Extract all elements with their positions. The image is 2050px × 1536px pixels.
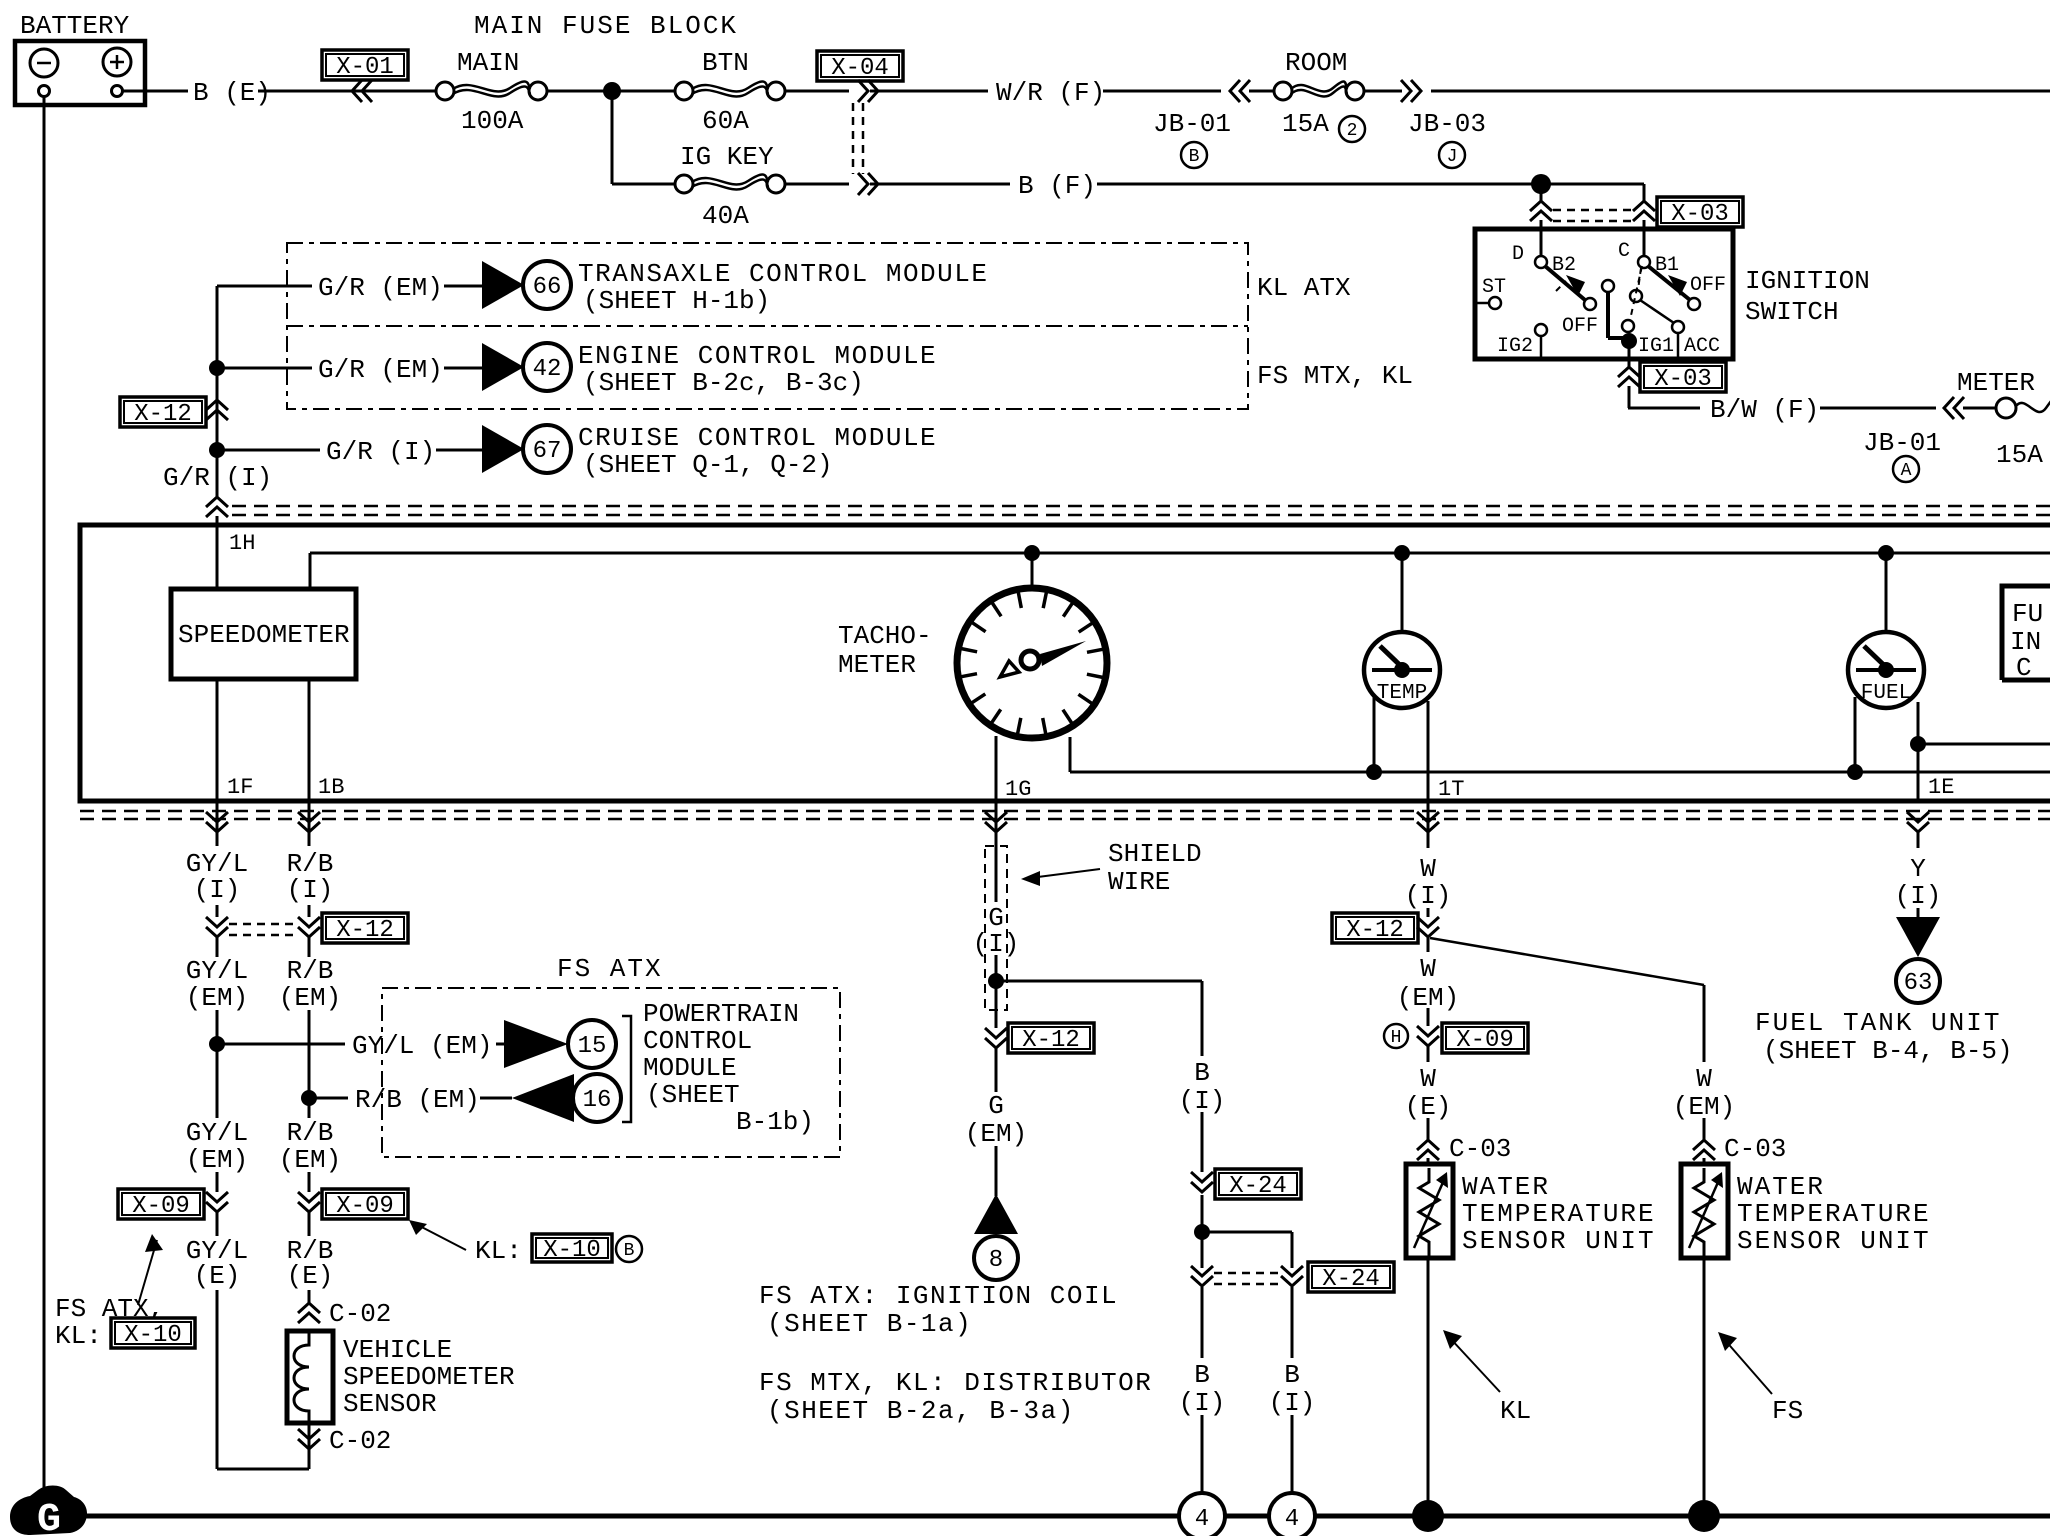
label ENGINE CONTROL MODULE [578,341,937,398]
svg-text:G/R (EM): G/R (EM) [318,273,443,303]
connector X-12 center [1008,1023,1094,1054]
svg-text:R/B: R/B [287,1118,334,1148]
connector chevrons X-09 GY/L [206,1192,228,1212]
svg-text:JB-03: JB-03 [1408,109,1486,139]
connector chevrons X-04 row2 [858,173,878,195]
svg-text:4: 4 [1285,1506,1299,1533]
wire B (F) [870,183,1535,186]
junction dot fuel bus [1847,764,1863,780]
connector chevrons X-12 W [1417,917,1439,937]
connector X-09 W [1442,1023,1528,1054]
wire to fuel indicator [1918,743,2050,746]
svg-text:(E): (E) [1405,1092,1452,1122]
connector X-12 dashed link [229,923,297,926]
svg-text:FU: FU [2012,599,2043,629]
wire label R/B (I) [287,849,334,905]
svg-text:BATTERY: BATTERY [20,11,130,41]
connector chevrons C-02 top [298,1303,320,1323]
svg-text:C-02: C-02 [329,1299,391,1329]
svg-text:X-12: X-12 [1022,1027,1080,1054]
svg-text:X-10: X-10 [124,1322,182,1349]
svg-text:(EM): (EM) [186,1145,248,1175]
svg-text:KL:: KL: [55,1321,102,1351]
svg-text:TRANSAXLE CONTROL MODULE: TRANSAXLE CONTROL MODULE [578,259,988,289]
connector chevrons C-03 right [1693,1140,1715,1160]
svg-text:POWERTRAIN: POWERTRAIN [643,999,799,1029]
label CRUISE CONTROL MODULE [578,423,937,480]
svg-text:67: 67 [533,438,562,465]
arrow to ignition coil [974,1194,1018,1234]
svg-text:X-12: X-12 [336,917,394,944]
svg-text:16: 16 [583,1087,612,1114]
connector chevrons X-01 [352,80,372,102]
dashed option box KL ATX / FS MTX [287,243,1248,409]
circled 15 powertrain [568,1020,616,1068]
arrow from powertrain pin 16 [512,1074,574,1122]
svg-text:TEMPERATURE: TEMPERATURE [1737,1199,1931,1229]
wire label B (I) upper [1179,1058,1226,1116]
svg-text:B: B [624,1241,635,1261]
svg-text:1H: 1H [229,531,255,556]
wire fuel right 1E [1917,702,1920,801]
svg-text:1B: 1B [318,775,344,800]
svg-text:JB-01: JB-01 [1863,428,1941,458]
svg-text:C-03: C-03 [1724,1134,1786,1164]
wire to fuel gauge [1885,553,1888,634]
label FS MTX, KL: DISTRIBUTOR [759,1368,1152,1426]
instrument cluster box [80,525,2050,801]
ignition switch box [1475,229,1733,359]
wire label GY/L (E) [186,1236,248,1291]
svg-text:WATER: WATER [1462,1172,1550,1202]
svg-text:OFF: OFF [1562,315,1598,338]
svg-text:B-1b): B-1b) [736,1107,814,1137]
svg-text:TEMPERATURE: TEMPERATURE [1462,1199,1656,1229]
dashed bus lower pair [80,811,2050,819]
wire to temp gauge [1401,553,1404,634]
svg-text:B: B [1189,147,1200,167]
connector X-12 lower [322,913,408,944]
wire W/R (F) [870,90,1221,93]
svg-text:X-03: X-03 [1654,366,1712,393]
svg-text:SENSOR UNIT: SENSOR UNIT [1737,1226,1931,1256]
circled A junction block [1893,456,1919,482]
svg-text:WATER: WATER [1737,1172,1825,1202]
junction dot G branch [988,973,1004,989]
wire label GY/L (EM) upper [186,956,248,1013]
svg-text:66: 66 [533,274,562,301]
connector chevrons X-24 upper [1191,1172,1213,1192]
svg-text:CRUISE CONTROL MODULE: CRUISE CONTROL MODULE [578,423,937,453]
connector chevrons X-24 lower right [1281,1266,1303,1286]
wire 1H to speedometer [216,525,219,589]
svg-text:MAIN FUSE BLOCK: MAIN FUSE BLOCK [474,11,738,41]
svg-text:WIRE: WIRE [1108,867,1170,897]
connector chevrons X-24 lower left [1191,1266,1213,1286]
ignition contact IG2 [1497,324,1547,359]
wire label G (I) [973,903,1020,959]
ignition contact ACC path [1630,268,1720,359]
wire fuel left to bus [1854,697,1857,772]
svg-text:(E): (E) [287,1261,334,1291]
shield wire dashed box [985,846,1007,1010]
wire label W (EM) [1397,954,1459,1013]
water temperature sensor unit KL [1406,1164,1453,1258]
wire MAIN fuse to BTN fuse [547,90,675,93]
svg-text:W: W [1420,954,1436,984]
svg-text:(I): (I) [1179,1086,1226,1116]
wire IG KEY fuse to X-04 [785,183,849,186]
svg-text:X-12: X-12 [1346,917,1404,944]
svg-text:(I): (I) [1269,1388,1316,1418]
wire B right to ground [1291,1287,1294,1493]
ignition contact ST [1475,276,1506,309]
svg-text:GY/L: GY/L [186,956,248,986]
svg-text:SWITCH: SWITCH [1745,297,1839,327]
wire GY/L column [216,801,219,1469]
svg-text:1E: 1E [1928,775,1954,800]
svg-text:(SHEET B-2c, B-3c): (SHEET B-2c, B-3c) [583,368,864,398]
wire label R/B (E) [287,1236,334,1291]
svg-text:(SHEET B-4, B-5): (SHEET B-4, B-5) [1763,1036,2013,1066]
ignition contact B2 [1535,254,1576,277]
svg-text:GY/L (EM): GY/L (EM) [352,1031,492,1061]
svg-text:FS MTX, KL: FS MTX, KL [1257,361,1413,391]
svg-text:B (E): B (E) [193,78,271,108]
svg-text:X-09: X-09 [132,1193,190,1220]
junction dot fuel feed [1878,545,1894,561]
junction dot tacho feed [1024,545,1040,561]
svg-text:15: 15 [578,1033,607,1060]
arrow to engine module [482,343,524,391]
connector chevrons X-03 top left [1530,201,1552,221]
svg-text:X-09: X-09 [1456,1027,1514,1054]
wire G column [995,801,998,1196]
svg-text:(SHEET H-1b): (SHEET H-1b) [583,286,770,316]
svg-text:IGNITION: IGNITION [1745,266,1870,296]
wire label R/B (EM) upper [279,956,341,1013]
label WATER TEMPERATURE SENSOR UNIT FS [1737,1172,1931,1256]
junction dot GY/L branch [209,1036,225,1052]
connector chevrons C-02 bottom [298,1429,320,1449]
wire ROOM fuse to JB-03 [1364,90,1402,93]
connector chevrons JB-01 B [1230,80,1250,102]
svg-text:H: H [1391,1028,1402,1048]
svg-text:(I): (I) [1405,881,1452,911]
svg-text:X-09: X-09 [336,1193,394,1220]
connector X-10 right callout [532,1234,612,1264]
wire B (F) to ignition switch C [1541,184,1644,262]
svg-text:B: B [1284,1360,1300,1390]
ignition switch arm B2-OFF [1545,266,1596,310]
svg-text:B (F): B (F) [1018,171,1096,201]
wire label B (I) lower left [1179,1360,1226,1418]
wire B/W (F) [1628,407,1936,410]
wire temp left to bus [1373,696,1376,772]
KL callout arrow [1443,1330,1531,1426]
fuse BTN 60A [675,81,785,100]
wire label G (EM) [965,1091,1027,1149]
water temperature sensor unit FS [1681,1164,1728,1258]
svg-text:IG1: IG1 [1638,335,1674,358]
svg-text:KL:: KL: [475,1236,522,1266]
svg-text:4: 4 [1195,1506,1209,1533]
wire speedometer 1B [308,679,311,801]
svg-text:(SHEET: (SHEET [646,1080,740,1110]
svg-text:IG KEY: IG KEY [680,142,774,172]
svg-text:SHIELD: SHIELD [1108,839,1202,869]
wire branch to second B [1202,1232,1292,1268]
connector chevrons 1G [985,812,1007,832]
connector X-24 upper [1215,1169,1301,1200]
ignition contact IG1 path [1602,266,1674,358]
svg-text:ROOM: ROOM [1285,48,1347,78]
connector chevrons X-09 R/B [298,1192,320,1212]
connector X-24 dashed link [1214,1272,1280,1275]
svg-text:IG2: IG2 [1497,335,1533,358]
arrow to powertrain pin 15 [504,1020,568,1068]
svg-text:J: J [1447,147,1458,167]
svg-text:B: B [1194,1058,1210,1088]
ignition switch arm B1-OFF [1648,266,1700,310]
svg-text:C-02: C-02 [329,1426,391,1456]
svg-text:15A: 15A [1996,440,2043,470]
wire B column continue [1201,1195,1204,1268]
svg-text:R/B (EM): R/B (EM) [355,1085,480,1115]
wire label GY/L (I) [186,849,248,905]
svg-text:(I): (I) [1895,881,1942,911]
svg-text:METER: METER [1957,368,2035,398]
connector chevrons JB-01 A [1944,397,1964,419]
wire to right edge top bus [1431,90,2050,93]
svg-text:(SHEET Q-1, Q-2): (SHEET Q-1, Q-2) [583,450,833,480]
label TRANSAXLE CONTROL MODULE [578,259,988,316]
connector chevrons 1F [206,812,228,832]
ground symbol G [10,1486,87,1536]
connector chevrons X-03 top right [1633,201,1655,221]
label KL: X-10 B callout [409,1220,522,1266]
connector X-03 [1640,362,1726,393]
wire battery+ to X-01 [123,90,437,93]
battery ground wire [43,96,46,1498]
speedometer box [171,589,356,679]
connector chevrons X-12 left [206,400,228,420]
svg-text:G: G [988,1091,1004,1121]
wire branch to B (I) [996,981,1202,1172]
wire G/R vertical trunk [216,286,219,525]
connector chevrons cluster 1H [206,497,228,517]
svg-text:W: W [1420,1064,1436,1094]
circled 42 engine [523,343,571,391]
svg-text:C-03: C-03 [1449,1134,1511,1164]
svg-text:2: 2 [1347,121,1358,141]
svg-text:B/W (F): B/W (F) [1710,395,1819,425]
svg-text:X-01: X-01 [336,54,394,81]
connector chevrons X-03 bottom [1618,367,1640,387]
wire KL sensor to ground [1427,1258,1430,1505]
svg-text:(E): (E) [194,1261,241,1291]
circled B connector [616,1236,642,1262]
svg-text:C: C [2016,653,2032,683]
svg-text:8: 8 [989,1247,1003,1274]
svg-text:FS MTX, KL: DISTRIBUTOR: FS MTX, KL: DISTRIBUTOR [759,1368,1152,1398]
svg-text:X-10: X-10 [543,1237,601,1264]
svg-text:(EM): (EM) [1673,1092,1735,1122]
svg-text:(I): (I) [1179,1388,1226,1418]
svg-text:X-12: X-12 [134,401,192,428]
tachometer gauge [957,588,1107,738]
svg-text:SENSOR UNIT: SENSOR UNIT [1462,1226,1656,1256]
wire label GY/L (EM) lower [186,1118,248,1175]
svg-text:METER: METER [838,650,916,680]
svg-text:KL ATX: KL ATX [1257,273,1351,303]
ground dot FS sensor [1688,1500,1720,1532]
connector X-10 left callout [111,1318,195,1349]
dashed bus upper pair [232,506,2050,515]
svg-text:B: B [1194,1360,1210,1390]
svg-text:(EM): (EM) [279,1145,341,1175]
dashed option box FS ATX powertrain [382,988,840,1157]
wire R/B (EM) to powertrain [309,1097,512,1100]
fuse ROOM 15A [1274,81,1364,100]
label FUEL TANK UNIT [1755,1008,2013,1066]
wire BTN fuse to X-04 [785,90,849,93]
connector chevrons X-12 R/B [298,917,320,937]
wire to tachometer [1031,553,1034,592]
wire to METER fuse [1963,407,1995,410]
circled J junction block [1439,142,1465,168]
svg-text:(SHEET B-2a, B-3a): (SHEET B-2a, B-3a) [767,1396,1075,1426]
svg-text:JB-01: JB-01 [1153,109,1231,139]
circled 16 powertrain [573,1074,621,1122]
svg-text:A: A [1901,461,1912,481]
connector X-24 lower [1308,1262,1394,1293]
wire label W (I) [1405,854,1452,911]
junction dot R/B branch [301,1090,317,1106]
label VEHICLE SPEEDOMETER SENSOR [343,1335,515,1419]
svg-text:FUEL TANK UNIT: FUEL TANK UNIT [1755,1008,2001,1038]
svg-text:W: W [1420,854,1436,884]
circled 66 transaxle [523,261,571,309]
label TACHO-METER [838,621,932,680]
svg-text:X-24: X-24 [1229,1173,1287,1200]
svg-text:X-04: X-04 [831,55,889,82]
svg-text:40A: 40A [702,201,749,231]
wire to IG KEY fuse [612,183,675,186]
battery [15,41,145,105]
svg-text:G/R (EM): G/R (EM) [318,355,443,385]
svg-text:(EM): (EM) [1397,983,1459,1013]
svg-text:X-03: X-03 [1671,201,1729,228]
label POWERTRAIN CONTROL MODULE [643,999,814,1137]
connector chevrons X-12 GY/L [206,917,228,937]
label SHIELD WIRE callout [1021,839,1202,897]
wire Y column [1917,832,1920,917]
svg-text:ACC: ACC [1684,335,1720,358]
svg-text:CONTROL: CONTROL [643,1026,752,1056]
cluster inner bus top [310,553,2050,589]
junction dot main bus [603,82,621,100]
circled 63 fuel tank [1896,959,1940,1003]
svg-text:ST: ST [1482,276,1506,299]
arrow to fuel tank unit [1896,917,1940,957]
wire tacho right to bus [1070,737,2050,772]
wire diagonal to FS sensor [1430,938,1704,1166]
fuel indicator box partial [2002,586,2050,683]
ground connector 4 left [1179,1493,1225,1536]
connector chevrons C-03 left [1417,1140,1439,1160]
wire G/R (I) row3 [217,449,482,452]
wire speedometer 1F [216,679,219,801]
svg-text:MAIN: MAIN [457,48,519,78]
connector chevrons JB-03 J [1401,80,1421,102]
fuse MAIN 100A [436,81,547,100]
svg-text:BTN: BTN [702,48,749,78]
connector X-09 left [118,1189,204,1220]
wire down to IG KEY fuse [611,91,614,184]
arrow to transaxle module [482,261,524,309]
svg-text:MODULE: MODULE [643,1053,737,1083]
label WATER TEMPERATURE SENSOR UNIT KL [1462,1172,1656,1256]
powertrain bracket [622,1016,631,1122]
svg-text:15A: 15A [1282,109,1329,139]
svg-text:(I): (I) [973,929,1020,959]
svg-text:G/R (I): G/R (I) [326,437,435,467]
svg-text:FS: FS [1772,1396,1803,1426]
junction dot B branch [1194,1224,1210,1240]
svg-text:1G: 1G [1005,777,1031,802]
svg-text:G/R (I): G/R (I) [163,463,272,493]
fuse METER 15A partial [1996,398,2050,418]
connector X-01 [322,50,408,81]
FS callout arrow [1718,1332,1803,1426]
circled 8 ignition coil [974,1236,1018,1280]
wire G/R (EM) row2 [217,367,482,370]
temp gauge [1364,632,1440,708]
connector chevrons X-09 W [1417,1026,1439,1046]
connector chevrons 1T [1417,812,1439,832]
wire IG1 down [1628,341,1631,408]
ground dot KL sensor [1412,1500,1444,1532]
connector chevrons X-12 G [985,1028,1007,1048]
fuse IG KEY 40A [675,174,785,193]
svg-text:FS ATX: IGNITION COIL: FS ATX: IGNITION COIL [759,1281,1118,1311]
wire W column [1427,801,1430,1166]
connector chevrons 1B [298,812,320,832]
vehicle speedometer sensor box [287,1331,333,1423]
connector X-09 right [322,1189,408,1220]
svg-text:100A: 100A [461,106,524,136]
svg-text:(SHEET B-1a): (SHEET B-1a) [767,1309,972,1339]
svg-text:VEHICLE: VEHICLE [343,1335,452,1365]
svg-text:SENSOR: SENSOR [343,1389,437,1419]
svg-text:(I): (I) [287,875,334,905]
circled H [1384,1024,1408,1048]
wire FS sensor to ground [1703,1258,1706,1505]
label FS ATX: IGNITION COIL [759,1281,1118,1339]
label IGNITION SWITCH [1745,266,1870,327]
connector X-12 [120,397,206,428]
svg-text:FUEL: FUEL [1861,682,1911,705]
wire label B (I) lower right [1269,1360,1316,1418]
svg-text:(EM): (EM) [186,983,248,1013]
svg-text:X-24: X-24 [1322,1266,1380,1293]
svg-text:C: C [1618,240,1630,263]
junction dot fuel indicator [1910,736,1926,752]
svg-text:SPEEDOMETER: SPEEDOMETER [343,1362,515,1392]
circled 2 fuse number [1339,116,1365,142]
svg-text:KL: KL [1500,1396,1531,1426]
